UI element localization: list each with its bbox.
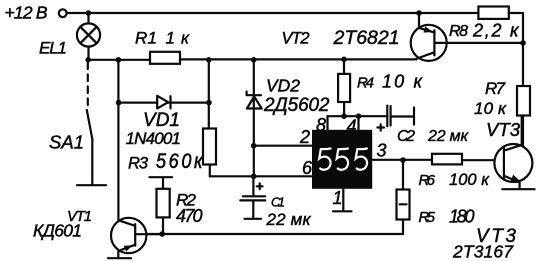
svg-text:R1: R1 [135,29,157,48]
svg-text:C2: C2 [397,128,415,145]
svg-text:2: 2 [299,127,310,147]
svg-text:R5: R5 [419,209,436,226]
svg-text:22 мк: 22 мк [266,210,312,229]
svg-text:22 мк: 22 мк [427,128,469,145]
svg-text:1к: 1к [166,29,190,48]
svg-text:2Т3167: 2Т3167 [452,242,514,261]
svg-text:VD1: VD1 [143,110,180,131]
svg-text:560к: 560к [156,150,203,174]
svg-text:R3: R3 [128,155,149,173]
svg-text:C1: C1 [271,195,285,210]
svg-text:R6: R6 [419,172,436,189]
svg-text:R7: R7 [485,79,506,98]
svg-text:3: 3 [377,141,387,161]
svg-text:VD2: VD2 [266,76,300,96]
svg-text:10 к: 10 к [474,99,507,118]
svg-text:470: 470 [176,206,203,226]
svg-text:R4: R4 [357,75,374,92]
svg-text:6: 6 [302,158,313,178]
svg-text:+12 В: +12 В [5,3,48,23]
svg-text:4: 4 [347,117,357,137]
svg-text:SA1: SA1 [49,132,84,153]
svg-text:2Т6821: 2Т6821 [333,27,400,49]
svg-text:EL1: EL1 [39,39,67,58]
svg-text:R8: R8 [449,23,468,40]
svg-text:VT3: VT3 [486,119,521,140]
svg-text:2,2 к: 2,2 к [472,21,520,41]
svg-text:VT2: VT2 [282,30,310,48]
svg-text:180: 180 [449,207,475,227]
svg-text:100 к: 100 к [449,171,490,189]
svg-text:8: 8 [316,115,326,135]
svg-text:2Д5602: 2Д5602 [263,95,330,116]
svg-text:КД601: КД601 [33,221,82,241]
svg-text:1: 1 [333,188,343,208]
svg-text:1N4001: 1N4001 [126,129,182,148]
svg-text:10 к: 10 к [382,72,424,92]
